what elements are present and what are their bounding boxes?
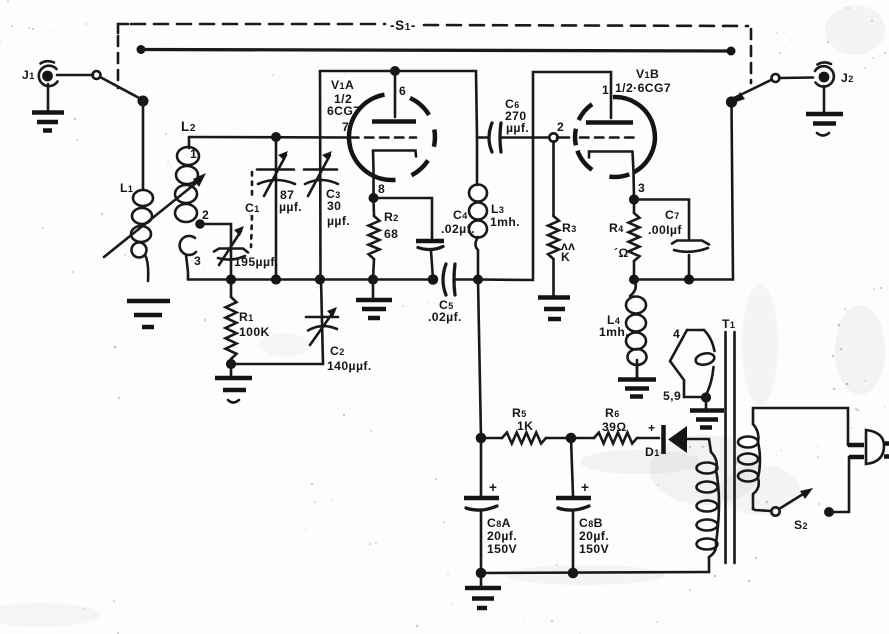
- svg-text:.02µf.: .02µf.: [428, 310, 462, 324]
- node rail junctions: [226, 274, 438, 285]
- svg-text:C8A: C8A: [487, 516, 511, 530]
- capacitor C3 30uuf: [304, 71, 350, 279]
- node V1A cathode junction: [369, 193, 379, 203]
- node bypass contact left: [137, 45, 146, 54]
- wire grid line from L2 to V1A pin7: [189, 136, 349, 139]
- svg-text:J1: J1: [22, 68, 35, 82]
- transformer T1 filament winding with heater pins: [663, 327, 715, 403]
- tube V1A envelope: [349, 95, 429, 180]
- svg-text:R6: R6: [605, 406, 620, 420]
- coupling arrow through L1 and L2: [104, 179, 201, 257]
- resistor R4: [609, 200, 640, 280]
- resistor R3: [548, 142, 577, 297]
- svg-text:S2: S2: [794, 518, 808, 532]
- svg-text:1: 1: [190, 147, 197, 161]
- svg-text:20µf.: 20µf.: [579, 529, 609, 543]
- capacitor C1 gang dashed link and label: [245, 172, 260, 247]
- svg-text:K: K: [561, 250, 570, 264]
- wire V1A plate top line: [320, 71, 477, 137]
- svg-text:1K: 1K: [517, 419, 533, 433]
- node B plus junction: [473, 275, 483, 285]
- tube V1A labels: [327, 78, 360, 118]
- capacitor C1 section 195uuf: [200, 224, 279, 279]
- svg-text:D1: D1: [645, 445, 660, 459]
- tube V1B labels: [615, 67, 671, 95]
- svg-text:R2: R2: [384, 210, 399, 224]
- svg-text:C2: C2: [330, 344, 345, 358]
- tube V1A grid pin 7: [342, 120, 435, 147]
- svg-text:1mh.: 1mh.: [599, 325, 629, 339]
- svg-text:7: 7: [342, 120, 349, 134]
- ground below J1: [32, 84, 64, 131]
- svg-text:1: 1: [602, 83, 609, 97]
- svg-text:3: 3: [194, 254, 201, 268]
- svg-text:8: 8: [378, 182, 385, 196]
- svg-text:R3: R3: [562, 221, 577, 235]
- wire B plus feed down to filter: [478, 280, 481, 439]
- svg-text:30: 30: [327, 199, 341, 213]
- AC plug: [848, 430, 889, 464]
- diode D1: [645, 421, 709, 459]
- svg-text:140µµf.: 140µµf.: [327, 359, 372, 373]
- svg-text:J2: J2: [841, 71, 854, 85]
- switch S2: [753, 457, 849, 532]
- svg-text:100K: 100K: [239, 325, 270, 339]
- svg-text:3: 3: [638, 181, 645, 195]
- ground below J2: [806, 86, 843, 136]
- svg-text:1/2·6CG7: 1/2·6CG7: [615, 81, 671, 95]
- node V1B cathode junction: [629, 194, 639, 204]
- node C7 bottom junction: [684, 274, 694, 284]
- capacitor C2 140uuf: [306, 279, 372, 373]
- choke L4 1mh: [599, 280, 647, 379]
- wire primary loop top to plug: [753, 408, 848, 445]
- connector J1: [22, 61, 58, 86]
- node R5 R6 C8B junction: [566, 433, 577, 444]
- capacitor C7 .001uf: [634, 200, 709, 280]
- svg-text:+: +: [581, 480, 589, 495]
- svg-text:68: 68: [384, 227, 398, 241]
- svg-text:39Ω: 39Ω: [602, 420, 627, 434]
- svg-text:150V: 150V: [487, 542, 518, 556]
- capacitor C4 .02uf: [374, 198, 475, 279]
- resistor R2 68: [369, 198, 399, 279]
- svg-text:µµf.: µµf.: [279, 200, 302, 214]
- ground below L1: [127, 301, 170, 327]
- svg-text:150V: 150V: [579, 542, 610, 556]
- connector J2: [815, 62, 854, 86]
- svg-text:195µµf.: 195µµf.: [234, 255, 279, 269]
- tube V1B envelope: [577, 97, 654, 177]
- ground on rail below R2: [356, 280, 392, 318]
- svg-text:µµf.: µµf.: [327, 214, 350, 228]
- svg-text:L1: L1: [120, 181, 133, 195]
- svg-text:C1: C1: [245, 201, 260, 215]
- svg-text:20µf.: 20µf.: [487, 529, 517, 543]
- transformer T1 secondary HV winding: [697, 439, 720, 572]
- resistor R6 39ohm: [571, 406, 659, 444]
- wire B plus riser to V1B plate: [478, 72, 611, 280]
- node C8B bottom: [568, 568, 579, 579]
- svg-text:2: 2: [202, 208, 209, 222]
- capacitor C6 270uuf: [477, 97, 549, 152]
- wire antenna bypass line: [141, 50, 731, 52]
- svg-text:L3: L3: [491, 202, 504, 216]
- switch S1 ganged linkage dashed line: [118, 24, 751, 88]
- capacitor C8B: [556, 438, 610, 573]
- svg-text:R4: R4: [609, 221, 624, 235]
- capacitor C1 section 87uuf: [257, 137, 302, 279]
- switch S1b arm and contacts: [726, 74, 780, 108]
- svg-text:C4: C4: [453, 208, 468, 222]
- node C8A bottom: [476, 568, 487, 579]
- svg-text:6: 6: [399, 84, 406, 98]
- svg-text:6CG7: 6CG7: [327, 104, 360, 118]
- svg-text:´Ω: ´Ω: [614, 246, 629, 260]
- wire R1 to C2 bottom: [231, 363, 323, 366]
- svg-text:+: +: [648, 421, 656, 435]
- svg-text:T1: T1: [722, 317, 735, 331]
- capacitor C8A: [464, 438, 518, 573]
- ground below filament winding: [690, 398, 724, 428]
- ground below R3: [538, 298, 570, 320]
- tube V1B plate pin 1: [586, 83, 633, 123]
- coil L2: [175, 119, 209, 279]
- wire J1 to switch contact: [57, 74, 93, 77]
- ground below L4: [618, 360, 656, 397]
- svg-text:2: 2: [557, 120, 564, 134]
- svg-text:5,9: 5,9: [663, 389, 681, 403]
- ground below R1: [215, 364, 252, 403]
- node V1B grid tie point pin 2: [549, 133, 557, 141]
- node bypass contact right: [727, 47, 736, 56]
- choke L3 1mh: [469, 137, 520, 279]
- transformer T1 core: [722, 317, 735, 563]
- svg-text:1mh.: 1mh.: [490, 215, 520, 229]
- transformer T1 primary winding: [738, 408, 760, 509]
- svg-text:R5: R5: [512, 406, 527, 420]
- wire ground rail: [188, 278, 433, 281]
- node grid line junction above 87uuf: [271, 132, 281, 142]
- svg-text:4: 4: [673, 327, 680, 341]
- node L4 junction: [629, 275, 639, 285]
- svg-text:R1: R1: [239, 310, 254, 324]
- coil L1: [120, 181, 153, 281]
- tube V1A plate pin 6: [372, 71, 416, 122]
- tube V1B grid pin 2: [557, 120, 634, 145]
- svg-text:C8B: C8B: [579, 516, 603, 530]
- wire J2 to switch contact: [779, 76, 813, 79]
- resistor R1 100K: [226, 279, 270, 369]
- capacitor C5 .02uf in rail: [428, 264, 478, 324]
- node filter output junction: [476, 433, 487, 444]
- wire power supply bottom rail: [481, 572, 709, 573]
- node V1A plate junction: [390, 66, 400, 76]
- ground below C8A: [465, 573, 501, 608]
- svg-text:µµf.: µµf.: [506, 121, 529, 135]
- scan smudge patches: [650, 435, 760, 505]
- svg-text:C7: C7: [665, 208, 680, 222]
- svg-text:.00Iµf: .00Iµf: [648, 223, 682, 237]
- wire switch to L1: [142, 101, 145, 189]
- svg-text:V1B: V1B: [636, 67, 659, 81]
- tube V1B cathode pin 3: [589, 152, 645, 200]
- tube V1A cathode pin 8: [373, 151, 416, 199]
- switch S1a pole and arm: [93, 71, 149, 107]
- svg-text:-S1-: -S1-: [390, 18, 416, 33]
- resistor R5 1K: [481, 406, 571, 444]
- wire V1B cathode bottom line: [634, 102, 733, 280]
- svg-text:V1A: V1A: [331, 78, 354, 92]
- svg-text:+: +: [489, 480, 497, 495]
